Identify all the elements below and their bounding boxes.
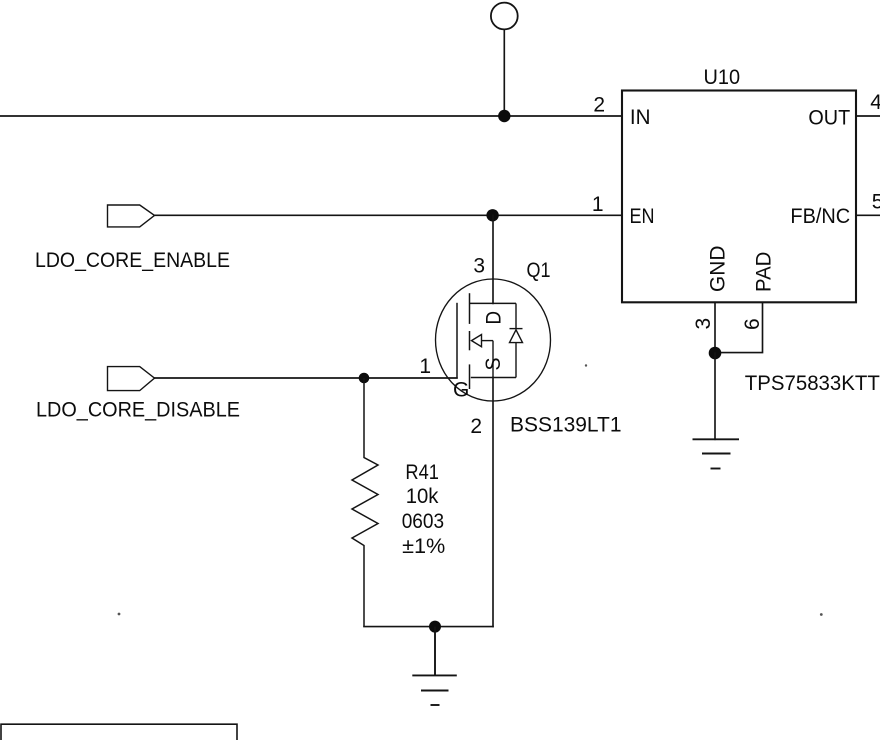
svg-text:LDO_CORE_DISABLE: LDO_CORE_DISABLE [36,399,240,422]
svg-text:6: 6 [741,318,764,330]
svg-text:1: 1 [419,355,431,378]
junction dot GND/PAD [709,347,722,360]
svg-text:U10: U10 [704,66,741,89]
transistor Q1 envelope circle [436,279,551,401]
wire IN net horizontal [0,115,622,117]
svg-text:3: 3 [692,318,715,330]
sheet block bottom-left [1,724,237,740]
wire Q1 source down [492,378,494,627]
svg-text:3: 3 [473,254,485,277]
svg-text:D: D [483,311,506,325]
op IC U10 body [622,91,856,303]
svg-text:FB/NC: FB/NC [790,205,850,228]
svg-text:GND: GND [707,246,730,292]
svg-text:Q1: Q1 [527,259,551,282]
wire OUT pin stub [856,115,880,117]
wire GND net to ground [714,353,716,439]
svg-text:2: 2 [470,415,482,438]
svg-text:PAD: PAD [753,252,776,292]
wire EN net horizontal [155,214,623,216]
ground symbol bottom center [412,627,457,705]
wire gate net (LDO_CORE_DISABLE) [155,377,458,379]
wire bottom net horizontal [364,626,493,628]
wire PAD pin stub [715,302,763,352]
svg-text:0603: 0603 [402,510,444,533]
junction dot gate net [359,373,370,384]
wire Q1 drain to EN net [492,215,494,303]
svg-text:EN: EN [630,205,655,228]
svg-text:OUT: OUT [808,107,850,130]
junction dot EN net [486,209,498,221]
svg-text:±1%: ±1% [402,535,445,558]
resistor R41 [352,378,378,627]
svg-text:LDO_CORE_ENABLE: LDO_CORE_ENABLE [35,249,230,272]
wire terminal to IN net [503,30,505,117]
svg-text:4: 4 [870,91,880,114]
transistor Q1 source bar [471,377,516,379]
wire GND pin stub [714,302,716,353]
terminal circle input net [491,3,518,30]
port LDO_CORE_DISABLE connector [108,367,155,391]
port LDO_CORE_ENABLE connector [108,205,155,227]
svg-text:10k: 10k [406,485,439,508]
ground symbol under U10 [693,439,740,468]
transistor Q1 drain bar [470,302,517,304]
svg-text:2: 2 [593,94,605,117]
svg-text:R41: R41 [405,461,439,484]
transistor Q1 channel dashes [469,293,471,389]
svg-text:5: 5 [872,190,880,213]
transistor Q1 body diode [510,303,523,377]
transistor Q1 substrate arrow [472,335,494,378]
svg-text:G: G [453,379,469,402]
transistor Q1 gate bar [456,303,458,378]
svg-text:1: 1 [592,193,604,216]
wire FB/NC pin stub [856,214,880,216]
junction dot bottom net [429,621,441,633]
svg-text:S: S [482,358,505,371]
svg-text:IN: IN [630,106,651,129]
svg-text:TPS75833KTTT: TPS75833KTTT [745,372,880,395]
junction dot IN net [498,110,510,122]
svg-text:BSS139LT1: BSS139LT1 [510,414,622,437]
